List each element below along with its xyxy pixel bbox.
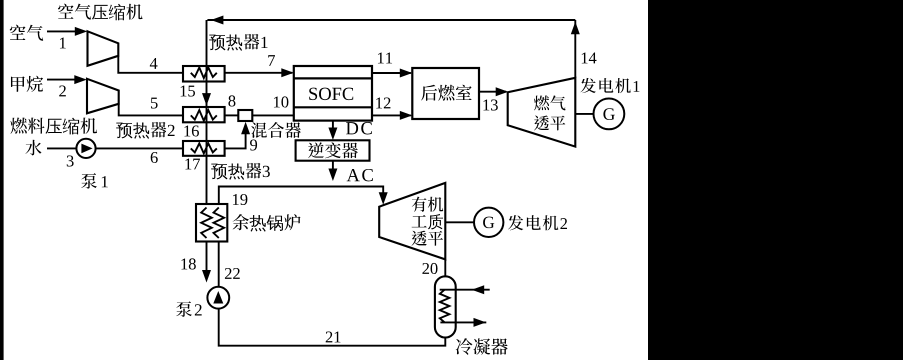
wire 20 (turbine to condenser) <box>444 259 446 277</box>
wire 10 (mixer to SOFC) <box>252 114 293 116</box>
label SOFC <box>309 88 353 100</box>
preheater HX2 zigzag <box>191 110 217 121</box>
wire 13 (afterburner to gas turbine) <box>479 91 506 93</box>
label air compressor 空气压缩机 <box>58 4 143 21</box>
boiler exhaust zigzag <box>201 208 212 239</box>
wire 2 methane inlet <box>47 79 78 81</box>
shaft to generator 1 <box>575 113 593 115</box>
label 后燃室 <box>421 85 472 101</box>
wire 3/6 water line <box>47 147 183 149</box>
arrow 18 down (exhaust out) <box>202 270 211 283</box>
cooling water inlet wire <box>440 289 490 291</box>
inverter box 逆变器 <box>296 140 370 160</box>
wire 5 (compressor2 to preheater2) <box>119 104 183 116</box>
preheater HX1 box <box>183 66 225 82</box>
wire 11 (SOFC cathode out) <box>372 72 411 74</box>
label 冷凝器 <box>456 338 508 355</box>
label 20 <box>422 263 437 274</box>
label 有机 <box>412 197 443 212</box>
SOFC inner line bottom <box>294 106 372 108</box>
wire 21 (condenser to pump 2 to boiler) <box>219 242 446 346</box>
label 17 <box>185 159 200 170</box>
pump P1 <box>76 139 95 158</box>
arrow left into preheater column <box>211 16 224 25</box>
label 6 <box>151 152 158 163</box>
label 11 <box>378 53 392 64</box>
wire hot exhaust column x=206.5 <box>206 20 208 205</box>
label 水 (water) <box>25 140 41 156</box>
cooling water outlet arrow <box>474 318 487 327</box>
label 1 <box>60 38 66 49</box>
preheater HX1 zigzag <box>191 68 217 79</box>
label 混合器 <box>251 122 301 138</box>
gas turbine 燃气透平 <box>508 78 576 147</box>
label 22 <box>225 268 240 279</box>
label 4 <box>150 58 158 69</box>
pump P2 <box>207 287 229 309</box>
generator G1 circle <box>594 99 625 130</box>
label 3 <box>67 155 74 166</box>
label 工质 <box>412 214 443 230</box>
wire 4 (compressor1 to preheater1) <box>118 56 183 73</box>
label DC <box>346 122 372 134</box>
label AC <box>347 169 373 181</box>
label 甲烷 (methane) <box>11 76 43 92</box>
label 21 <box>326 331 341 342</box>
arrow 15 down (into preheater 2) <box>202 93 211 106</box>
wire 14 top return (turbine exhaust to preheater 1) <box>207 20 575 78</box>
label G in generator 2 <box>483 217 494 229</box>
arrow into compressor 2 <box>74 75 87 84</box>
arrow 11 <box>400 69 413 78</box>
arrow DC down into inverter <box>328 128 337 141</box>
arrow AC down <box>328 169 337 182</box>
wire 12 (SOFC anode out) <box>372 114 411 116</box>
SOFC inner line top <box>294 77 372 79</box>
generator G2 circle <box>474 208 503 237</box>
label fuel compressor 燃料压缩机 <box>10 118 97 135</box>
label 泵2 <box>176 301 201 317</box>
label 发电机2 <box>508 215 567 230</box>
wire 7 (preheater1 to SOFC) <box>225 72 293 74</box>
label 预热器1 <box>209 34 267 51</box>
label 15 <box>181 86 195 97</box>
label 12 <box>376 97 390 108</box>
compressor C1 (air) <box>88 31 119 66</box>
arrow 9 up into mixer <box>241 122 250 135</box>
cooling water inlet arrow <box>472 285 485 294</box>
label 燃气 <box>534 95 566 110</box>
label 余热锅炉 <box>233 214 301 231</box>
label 7 <box>268 55 275 66</box>
ORC turbine 有机工质透平 <box>379 183 445 260</box>
condenser zigzag <box>440 290 450 323</box>
preheater HX2 box <box>183 107 225 122</box>
label 13 <box>483 99 497 110</box>
arrow 7 into SOFC <box>281 68 294 77</box>
label 预热器2 <box>116 122 174 139</box>
arrow 19 down into ORC turbine <box>379 192 388 205</box>
mixer box 混合器 <box>238 110 252 121</box>
cooling water outlet wire <box>440 321 486 323</box>
label 5 <box>151 98 158 109</box>
label 逆变器 <box>308 142 358 158</box>
condenser capsule 冷凝器 <box>435 276 456 337</box>
boiler box 余热锅炉 <box>196 204 227 242</box>
arrow up on wire 14 <box>571 22 580 35</box>
wire exhaust below boiler (stream 18) <box>206 242 208 272</box>
shaft to generator 2 <box>445 221 474 223</box>
afterburner box 后燃室 <box>412 68 479 119</box>
black left edge strip <box>0 0 4 360</box>
wire DC from SOFC <box>332 121 334 131</box>
wire 19 (boiler to ORC turbine) <box>219 187 383 205</box>
label 18 <box>181 258 195 269</box>
boiler ORC zigzag <box>214 208 225 239</box>
label 19 <box>233 194 247 205</box>
label 2 <box>59 85 66 96</box>
label 预热器3 <box>211 163 270 180</box>
label 透平 <box>534 115 565 130</box>
preheater HX3 box <box>183 141 225 156</box>
label 透平(orc) <box>412 231 443 246</box>
label 8 <box>228 95 235 106</box>
wire 1 air inlet <box>47 30 78 32</box>
label 16 <box>184 125 199 136</box>
compressor C2 (fuel) <box>87 79 119 114</box>
preheater HX3 zigzag <box>191 143 217 153</box>
arrow 12 <box>400 111 413 120</box>
label 空气 (air) <box>10 25 43 41</box>
arrow into compressor 1 <box>75 27 88 36</box>
arrow 13 <box>496 87 509 96</box>
wire 9 (preheater3 to mixer) <box>225 131 246 148</box>
label 14 <box>582 53 597 64</box>
label 10 <box>274 96 288 107</box>
black side panel <box>648 0 903 360</box>
wire 8 (preheater2 to mixer) <box>225 114 239 116</box>
label 发电机1 <box>580 78 639 93</box>
label G in generator 1 <box>603 108 614 120</box>
label 9 <box>250 139 257 150</box>
SOFC stack box <box>294 66 372 121</box>
label 泵1 <box>81 173 108 189</box>
wire AC out of inverter <box>332 161 334 172</box>
